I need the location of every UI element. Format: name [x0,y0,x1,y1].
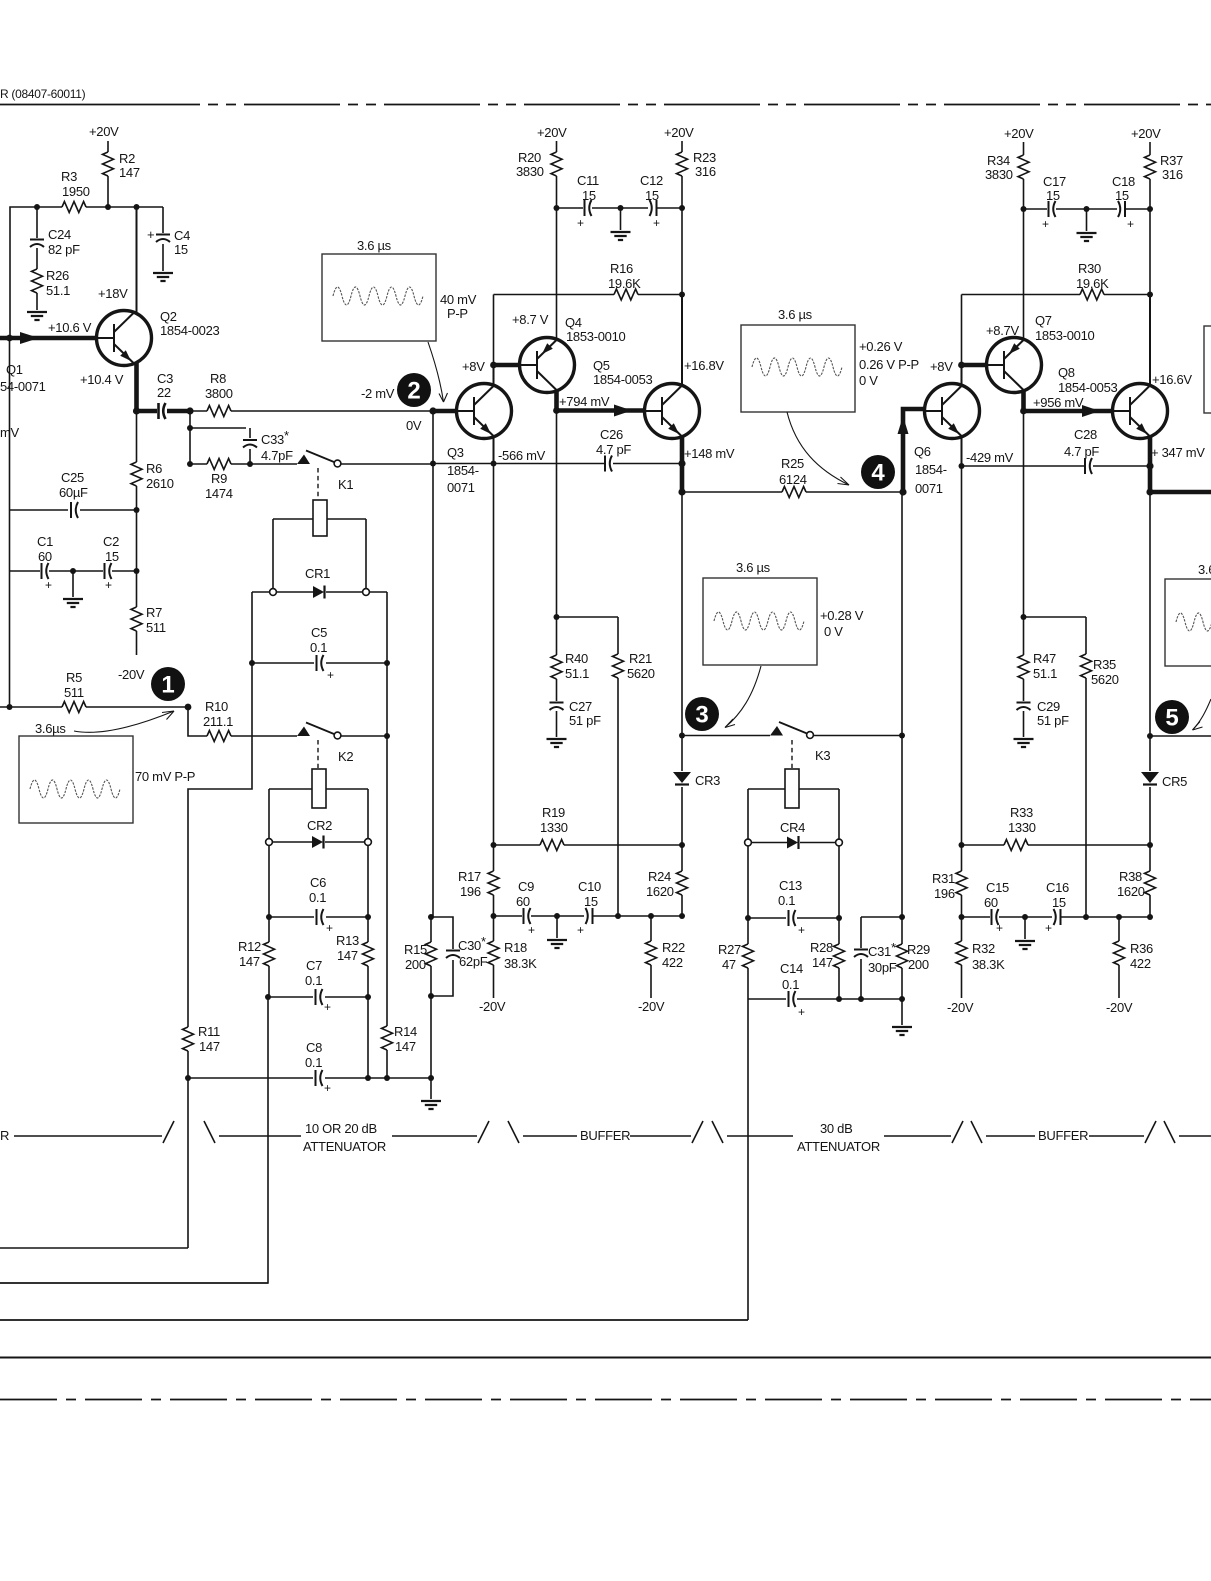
svg-text:C5: C5 [311,625,327,640]
svg-text:+0.28 V: +0.28 V [820,608,864,623]
svg-text:R31: R31 [932,871,955,886]
svg-text:3800: 3800 [205,386,233,401]
wire C26 row [433,463,682,465]
svg-text:+: + [327,668,334,682]
resistor R20 [551,152,562,176]
svg-text:+: + [1045,921,1052,935]
switch K1 [297,455,310,465]
capacitor C26 [604,456,606,472]
svg-text:R27: R27 [718,942,741,957]
svg-text:C16: C16 [1046,880,1069,895]
pointer arrow 2 [428,342,444,402]
svg-text:CR5: CR5 [1162,774,1187,789]
svg-text:62pF: 62pF [459,954,488,969]
svg-text:3.6 µs: 3.6 µs [357,238,392,253]
wire bold Q7 collector to Q8 base [1024,391,1113,412]
svg-text:0.1: 0.1 [782,977,799,992]
wire C28 row [962,465,1151,467]
svg-text:147: 147 [337,948,358,963]
wire column x493 down [493,464,495,846]
svg-text:C6: C6 [310,875,326,890]
marker circle 2 [397,373,431,407]
svg-text:30pF: 30pF [868,960,897,975]
resistor R18 [493,916,495,998]
capacitor C27 [556,711,558,737]
wire K relay drive lines [0,1247,188,1249]
resistor R37 [1145,155,1156,179]
svg-text:R24: R24 [648,869,671,884]
diode CR2 [273,841,365,843]
resistor R22 [650,916,652,998]
transistor Q8 [1113,384,1168,439]
ground [1014,739,1034,747]
svg-text:1950: 1950 [62,184,90,199]
capacitor C33 [249,428,251,464]
svg-text:+16.6V: +16.6V [1152,372,1192,387]
svg-text:1474: 1474 [205,486,233,501]
pointer arrow 1 [74,711,174,732]
resistor R12 [264,942,275,966]
svg-text:3.6 µs: 3.6 µs [736,560,771,575]
svg-text:60: 60 [38,549,52,564]
svg-text:Q8: Q8 [1058,365,1075,380]
wire coil K3 [748,789,839,839]
svg-text:147: 147 [812,955,833,970]
svg-text:+8V: +8V [930,359,953,374]
svg-text:+8.7 V: +8.7 V [512,312,549,327]
svg-text:1853-0010: 1853-0010 [566,329,626,344]
marker circle 5 [1155,700,1189,734]
svg-text:+20V: +20V [89,124,119,139]
wire column x961 down [961,466,963,845]
wire relay drive bus 2 [0,1282,268,1284]
svg-text:15: 15 [584,894,598,909]
resistor R17 [493,845,495,916]
ground [153,273,173,281]
svg-text:+: + [653,216,660,230]
capacitor C28 [1084,458,1086,474]
svg-text:19.6K: 19.6K [1076,276,1109,291]
svg-text:1854-0053: 1854-0053 [593,372,653,387]
svg-text:R3: R3 [61,169,77,184]
resistor R26 [32,269,43,293]
svg-text:51.1: 51.1 [1033,666,1057,681]
svg-text:+ 347 mV: + 347 mV [1151,445,1205,460]
svg-text:R18: R18 [504,940,527,955]
svg-text:4.7 pF: 4.7 pF [1064,444,1099,459]
svg-text:40 mV: 40 mV [440,292,477,307]
svg-text:+: + [528,923,535,937]
wire Q1 output (bold into Q2 base) [0,336,97,341]
resistor R24 [681,845,683,916]
svg-text:0 V: 0 V [824,624,843,639]
svg-text:R10: R10 [205,699,228,714]
waveform box 3a [703,578,817,665]
svg-text:3.6 µs: 3.6 µs [1198,562,1211,577]
wire Q5 collector [681,295,683,385]
svg-text:60: 60 [516,894,530,909]
svg-text:51 pF: 51 pF [1037,713,1069,728]
svg-text:4: 4 [871,460,885,487]
wire Q8 collector [1149,295,1151,385]
svg-text:C15: C15 [986,880,1009,895]
wire column x748 down [0,999,748,1320]
svg-text:C10: C10 [578,879,601,894]
wire left rail [9,338,11,707]
svg-text:C18: C18 [1112,174,1135,189]
svg-text:C11: C11 [577,173,599,188]
svg-text:Q4: Q4 [565,315,582,330]
diode CR4 [752,842,836,844]
svg-text:15: 15 [645,188,659,203]
svg-text:C8: C8 [306,1040,322,1055]
svg-text:ATTENUATOR: ATTENUATOR [797,1139,880,1154]
svg-text:1854-: 1854- [447,463,479,478]
capacitor C25 [10,509,137,511]
svg-text:R34: R34 [987,153,1010,168]
svg-text:4.7pF: 4.7pF [261,448,293,463]
transistor Q5 [645,384,700,439]
svg-text:BUFFER: BUFFER [1038,1128,1088,1143]
resistor R25 [682,491,903,493]
svg-text:R16: R16 [610,261,633,276]
bottom solid rule [0,1357,1211,1359]
svg-text:147: 147 [199,1039,220,1054]
section brace 10 OR 20 dB ATTENUATOR [204,1121,489,1143]
svg-text:+794 mV: +794 mV [559,394,610,409]
svg-text:15: 15 [105,549,119,564]
wire +8V up to R16 [493,295,495,366]
capacitor C4 [162,207,164,271]
wire to right edge [1150,735,1211,737]
wire Q7 emitter to R34 [1023,209,1025,340]
svg-text:R7: R7 [146,605,162,620]
svg-text:15: 15 [1052,895,1066,910]
svg-text:0.1: 0.1 [305,973,322,988]
svg-text:Q3: Q3 [447,445,464,460]
svg-text:+: + [45,578,52,592]
resistor R13 [363,942,374,966]
wire [136,510,138,571]
svg-text:22: 22 [157,385,171,400]
svg-text:+20V: +20V [1131,126,1161,141]
svg-text:1: 1 [161,672,174,699]
capacitor C24 [36,207,38,269]
svg-text:R11: R11 [198,1024,220,1039]
svg-text:0.26 V P-P: 0.26 V P-P [859,357,919,372]
resistor R14 [382,1026,393,1050]
resistor R15 [430,917,432,1099]
section brace right (cut) [1164,1121,1211,1143]
svg-text:1854-0023: 1854-0023 [160,323,220,338]
svg-text:R38: R38 [1119,869,1142,884]
svg-text:P-P: P-P [447,306,468,321]
capacitor C13 [748,917,839,919]
svg-text:422: 422 [1130,956,1151,971]
relay coil K1 [317,468,319,499]
ground [27,312,47,320]
capacitor C17 [1024,208,1087,210]
wire R47/R35 branch [1024,617,1087,917]
svg-text:C9: C9 [518,879,534,894]
svg-text:+: + [577,216,584,230]
svg-text:R5: R5 [66,670,82,685]
svg-text:R19: R19 [542,805,565,820]
svg-text:4.7 pF: 4.7 pF [596,442,631,457]
svg-text:R32: R32 [972,941,995,956]
svg-text:+10.4 V: +10.4 V [80,372,124,387]
svg-text:3830: 3830 [985,167,1013,182]
svg-text:15: 15 [1115,188,1129,203]
svg-text:30 dB: 30 dB [820,1121,852,1136]
svg-text:C12: C12 [640,173,663,188]
wire K3 row [682,735,770,737]
svg-text:C25: C25 [61,470,84,485]
resistor R34 [1018,155,1029,179]
relay coil K3 [791,740,793,768]
ground [556,916,558,938]
resistor R40 [556,617,558,701]
svg-text:147: 147 [239,954,260,969]
wire bold Q6 collector to Q7 base [962,363,987,368]
svg-text:R13: R13 [336,933,359,948]
capacitor C18 [1087,208,1151,210]
resistor R11 [183,1027,194,1051]
svg-text:R40: R40 [565,651,588,666]
svg-text:38.3K: 38.3K [972,957,1005,972]
svg-text:C1: C1 [37,534,53,549]
marker circle 4 [861,455,895,489]
resistor R9 [190,463,297,465]
svg-text:0 V: 0 V [859,373,878,388]
svg-text:-20V: -20V [479,999,506,1014]
svg-text:511: 511 [146,620,166,635]
wire bold Q3 collector to Q4 base [494,363,520,368]
svg-text:-20V: -20V [1106,1000,1133,1015]
svg-text:1620: 1620 [1117,884,1145,899]
svg-text:C7: C7 [306,958,322,973]
relay coil K2 [317,740,319,768]
capacitor C10 [593,915,682,917]
svg-text:147: 147 [395,1039,416,1054]
svg-text:Q5: Q5 [593,358,610,373]
svg-text:1854-: 1854- [915,462,947,477]
capacitor C15 [962,916,1053,918]
svg-text:BUFFER: BUFFER [580,1128,630,1143]
waveform box 1 [19,736,133,823]
svg-text:+: + [1127,217,1134,231]
svg-text:+: + [324,1000,331,1014]
svg-text:82 pF: 82 pF [48,242,80,257]
pointer arrow 3a [725,666,761,728]
resistor R35 [1081,654,1092,678]
svg-text:0.1: 0.1 [310,640,327,655]
transistor Q2 [97,311,152,366]
wire columns below CR2 [269,846,368,1079]
wire R9/C33 branch [190,411,246,464]
svg-text:-20V: -20V [118,667,145,682]
wire Q2 emitter (bold) [137,363,158,411]
switch K3 [770,726,783,736]
resistor R36 [1118,917,1120,998]
svg-text:Q2: Q2 [160,309,177,324]
capacitor C8 [188,1077,431,1079]
svg-text:511: 511 [64,685,84,700]
svg-text:+148 mV: +148 mV [684,446,735,461]
svg-text:C17: C17 [1043,174,1066,189]
svg-text:+: + [147,227,154,242]
marker circle 1 [151,667,185,701]
capacitor C5 [252,662,387,664]
svg-text:316: 316 [1162,167,1183,182]
svg-text:0071: 0071 [447,480,475,495]
resistor R19 [494,844,683,846]
svg-text:200: 200 [908,957,929,972]
svg-text:1854-0053: 1854-0053 [1058,380,1118,395]
resistor R29 [901,492,903,999]
resistor R3 [10,207,163,338]
svg-text:51.1: 51.1 [46,283,70,298]
waveform box 2 [322,254,436,341]
bottom dash-dot rule [0,1399,1211,1401]
svg-text:15: 15 [174,242,188,257]
svg-text:C4: C4 [174,228,190,243]
ground [618,205,624,211]
svg-text:51.1: 51.1 [565,666,589,681]
svg-text:C13: C13 [779,878,802,893]
wire bold up to Q6 base [903,409,925,492]
svg-text:60µF: 60µF [59,485,88,500]
capacitor C11 [557,207,621,209]
svg-text:5620: 5620 [1091,672,1119,687]
svg-text:CR2: CR2 [307,818,332,833]
svg-text:19.6K: 19.6K [608,276,641,291]
svg-text:K3: K3 [815,748,830,763]
ground [1024,917,1026,939]
svg-text:15: 15 [1046,188,1060,203]
wire +8V up to R30 [961,295,963,366]
wire columns below CR4 [748,846,839,999]
svg-text:1853-0010: 1853-0010 [1035,328,1095,343]
capacitor C2 [73,570,137,572]
wire Q2 collector [136,207,138,313]
resistor R8 [190,410,433,412]
svg-text:+: + [798,1005,805,1019]
svg-text:R36: R36 [1130,941,1153,956]
resistor R32 [961,917,963,998]
svg-text:R (08407-60011): R (08407-60011) [0,87,86,101]
svg-text:R33: R33 [1010,805,1033,820]
wire Q3 collector to +8V [493,365,495,385]
svg-text:C24: C24 [48,227,71,242]
capacitor C7 [268,996,368,998]
svg-text:0.1: 0.1 [778,893,795,908]
capacitor C16 [1061,916,1150,918]
svg-text:R23: R23 [693,150,716,165]
svg-text:-20V: -20V [638,999,665,1014]
svg-text:38.3K: 38.3K [504,956,537,971]
wire Q3 emitter [493,437,495,464]
wire Q6 emitter [961,437,963,466]
svg-text:C14: C14 [780,961,803,976]
wire coil K1 [273,519,366,589]
svg-text:+16.8V: +16.8V [684,358,724,373]
resistor R33 [962,844,1151,846]
marker circle 3 [685,697,719,731]
svg-text:+20V: +20V [664,125,694,140]
svg-text:-566 mV: -566 mV [498,448,546,463]
svg-text:211.1: 211.1 [203,714,233,729]
resistor R16 [494,294,683,296]
top border rule [0,104,200,106]
capacitor C12 [621,207,683,209]
waveform box 5 [1165,579,1211,666]
waveform box at Q8 (cut) [1204,326,1211,413]
wire column x387 [386,592,388,1078]
svg-text:0071: 0071 [915,481,943,496]
ground [547,739,567,747]
svg-text:3: 3 [695,702,708,729]
section brace BUFFER 2 [971,1121,1156,1143]
svg-text:R26: R26 [46,268,69,283]
svg-text:0.1: 0.1 [309,890,326,905]
svg-text:R: R [0,1128,9,1143]
svg-text:6124: 6124 [779,472,807,487]
pointer arrow 3 [787,412,849,485]
wire relay drive bus 3 [0,1319,748,1321]
svg-text:+: + [324,1081,331,1095]
resistor R23 [677,152,688,176]
svg-text:C26: C26 [600,427,623,442]
svg-text:2: 2 [407,378,420,405]
wire R47 column from Q7 collector [1023,411,1025,617]
svg-text:0.1: 0.1 [305,1055,322,1070]
svg-text:10 OR 20 dB: 10 OR 20 dB [305,1121,377,1136]
resistor R7 [136,571,138,655]
svg-text:R25: R25 [781,456,804,471]
svg-text:+: + [577,923,584,937]
wire bold Q4 collector to Q5 base [557,391,645,411]
ground [901,999,903,1025]
svg-text:R22: R22 [662,940,685,955]
node +8V right [958,362,965,369]
svg-text:+: + [798,923,805,937]
svg-text:47: 47 [722,957,736,972]
svg-text:147: 147 [119,165,140,180]
svg-text:C28: C28 [1074,427,1097,442]
diode CR1 [252,591,387,593]
capacitor C1 [10,570,74,572]
svg-text:+: + [105,578,112,592]
capacitor C29 [1023,711,1025,737]
svg-text:Q1: Q1 [6,362,23,377]
resistor R38 [1149,845,1151,917]
capacitor C14 [748,998,902,1000]
svg-text:R21: R21 [629,651,652,666]
svg-text:R30: R30 [1078,261,1101,276]
svg-text:+8.7V: +8.7V [986,323,1019,338]
svg-text:+: + [996,921,1003,935]
waveform box 3 [741,325,855,412]
resistor R27 [743,944,754,968]
resistor R5 [0,706,188,708]
svg-text:+20V: +20V [1004,126,1034,141]
transistor Q3 [457,384,512,439]
capacitor C6 [269,916,368,918]
svg-text:R17: R17 [458,869,481,884]
svg-text:ATTENUATOR: ATTENUATOR [303,1139,386,1154]
svg-text:-429 mV: -429 mV [966,450,1014,465]
